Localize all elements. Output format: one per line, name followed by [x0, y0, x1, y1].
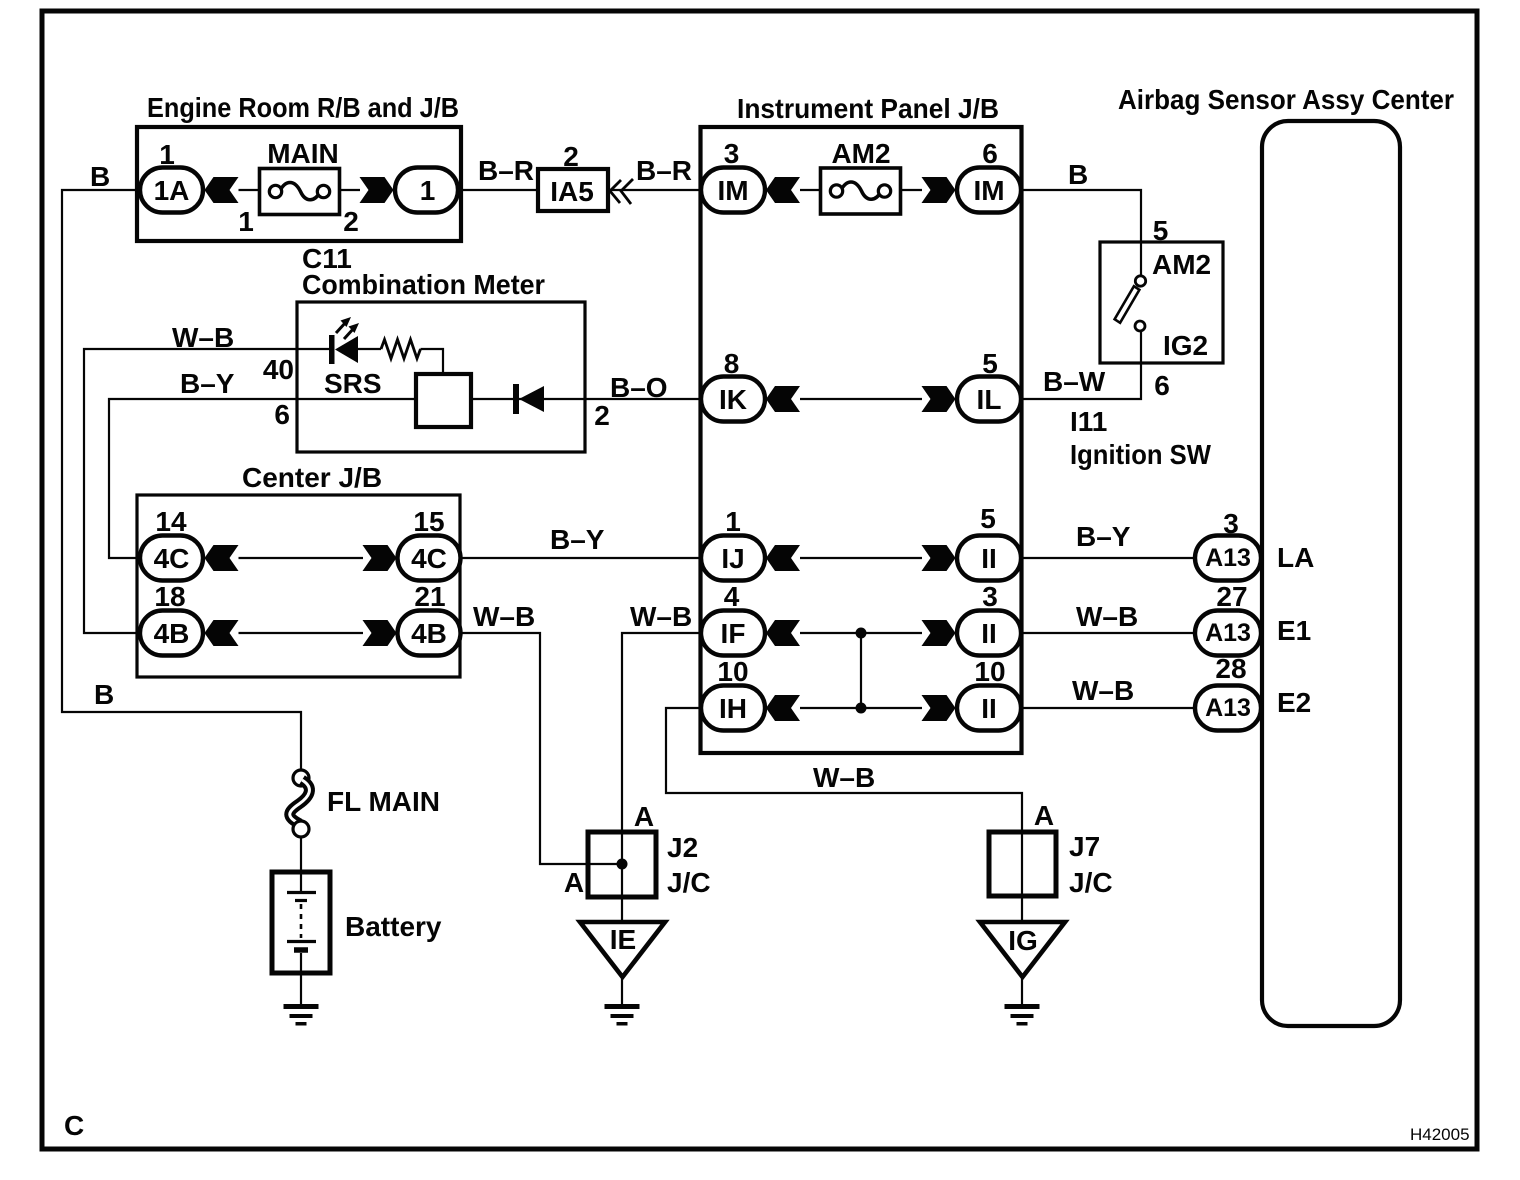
fusible link FL MAIN top terminal — [293, 770, 309, 786]
arrow into 4C left — [205, 545, 239, 571]
arrow into IM right — [922, 177, 956, 203]
switch contact AM2 — [1135, 276, 1145, 286]
wire MAIN fuse to arrow — [340, 189, 361, 191]
svg-text:Battery: Battery — [345, 911, 442, 942]
svg-text:2: 2 — [343, 206, 359, 237]
airbag sensor assy center box — [1262, 121, 1400, 1026]
svg-text:Center J/B: Center J/B — [242, 462, 382, 493]
wire B-R IA5 to IM — [608, 189, 701, 191]
svg-text:W–B: W–B — [1072, 675, 1134, 706]
fusible link FL MAIN bottom terminal — [293, 821, 309, 837]
svg-text:1: 1 — [238, 206, 254, 237]
connector IA5 — [538, 169, 608, 211]
arrow into II row3 — [922, 695, 956, 721]
svg-text:C: C — [64, 1110, 84, 1141]
ground (IG) — [1005, 1004, 1040, 1026]
svg-text:IE: IE — [610, 924, 636, 955]
svg-text:AM2: AM2 — [1152, 249, 1211, 280]
svg-text:1: 1 — [420, 175, 436, 206]
wire W-B II to A13 E1 — [1021, 632, 1196, 634]
junction block Instrument Panel J/B box — [701, 127, 1022, 753]
wire IK to IL — [800, 398, 922, 400]
wire IM arrow to AM2 fuse — [800, 189, 821, 191]
resistor R1 — [381, 340, 421, 359]
wire block to diode to pin 2 — [471, 398, 701, 400]
svg-text:A13: A13 — [1205, 694, 1251, 722]
svg-text:IJ: IJ — [721, 543, 744, 574]
svg-text:4C: 4C — [154, 543, 190, 574]
svg-text:Combination Meter: Combination Meter — [302, 269, 545, 300]
svg-text:1A: 1A — [154, 175, 190, 206]
svg-text:2: 2 — [594, 400, 610, 431]
connector oval 4C left — [140, 536, 203, 581]
svg-text:B–Y: B–Y — [1076, 521, 1131, 552]
svg-text:IH: IH — [719, 693, 747, 724]
connector oval IM right — [957, 168, 1021, 213]
svg-text:II: II — [981, 693, 997, 724]
connector oval II row1 — [957, 536, 1021, 581]
svg-text:5: 5 — [980, 503, 996, 534]
svg-text:J/C: J/C — [667, 867, 711, 898]
svg-text:IA5: IA5 — [550, 176, 594, 207]
connector oval II row3 — [957, 686, 1021, 731]
svg-text:18: 18 — [154, 581, 185, 612]
ground triangle IE — [580, 922, 665, 977]
svg-text:B: B — [94, 679, 114, 710]
svg-text:Engine Room R/B and J/B: Engine Room R/B and J/B — [147, 92, 459, 123]
svg-text:B–Y: B–Y — [550, 524, 605, 555]
wire meter pin 6 internal — [297, 398, 416, 400]
junction dot row2 — [856, 628, 867, 639]
wire B from connector 1A to battery feed — [62, 190, 301, 770]
wire W-B IH to J7 — [666, 708, 1022, 922]
junction connector J7 box — [989, 832, 1056, 896]
connector oval 4C right — [398, 536, 461, 581]
svg-text:A: A — [564, 867, 584, 898]
svg-text:15: 15 — [413, 506, 444, 537]
svg-text:3: 3 — [724, 138, 740, 169]
wire W-B IF to J2 — [622, 633, 701, 922]
arrow into IK — [766, 386, 800, 412]
svg-text:W–B: W–B — [473, 601, 535, 632]
wire W-B II to A13 E2 — [1021, 707, 1196, 709]
junction dot J2 — [617, 859, 628, 870]
svg-text:A: A — [1034, 800, 1054, 831]
svg-text:28: 28 — [1215, 653, 1246, 684]
connector oval IM left — [701, 168, 765, 213]
svg-text:W–B: W–B — [813, 762, 875, 793]
battery box — [272, 872, 330, 973]
svg-text:Airbag Sensor Assy Center: Airbag Sensor Assy Center — [1118, 84, 1454, 115]
svg-text:B–R: B–R — [478, 155, 534, 186]
wire B from IM right to ignition switch AM2 — [1021, 190, 1141, 276]
SRS indicator LED D1 — [329, 335, 335, 364]
wire FL MAIN to battery — [300, 837, 302, 891]
arrow into 4B right — [363, 620, 397, 646]
combination meter box — [297, 302, 585, 452]
wire inside meter pin40 to LED — [297, 348, 330, 350]
svg-text:10: 10 — [974, 656, 1005, 687]
svg-text:4B: 4B — [154, 618, 190, 649]
connector oval II row2 — [957, 611, 1021, 656]
fuse MAIN — [260, 169, 340, 215]
connector oval IF — [701, 611, 765, 656]
svg-text:6: 6 — [274, 399, 290, 430]
junction block Center J/B box — [137, 495, 460, 677]
svg-text:E2: E2 — [1277, 687, 1311, 718]
svg-text:IK: IK — [719, 384, 747, 415]
arrow into oval 1 — [360, 177, 394, 203]
svg-text:4: 4 — [724, 581, 740, 612]
svg-text:J2: J2 — [667, 832, 698, 863]
junction dot row3 — [856, 703, 867, 714]
svg-text:B–Y: B–Y — [180, 368, 235, 399]
svg-text:4B: 4B — [411, 618, 447, 649]
svg-text:B–R: B–R — [636, 155, 692, 186]
svg-text:14: 14 — [155, 506, 187, 537]
svg-text:W–B: W–B — [630, 601, 692, 632]
wire battery to ground — [300, 953, 302, 1005]
connector oval 1A — [140, 168, 203, 213]
internal unit block — [416, 374, 471, 427]
svg-text:IG2: IG2 — [1163, 330, 1208, 361]
svg-text:II: II — [981, 618, 997, 649]
wire B-R oval 1 to IA5 — [458, 189, 538, 191]
svg-text:3: 3 — [982, 581, 998, 612]
ground (battery) — [284, 1004, 319, 1026]
svg-text:4C: 4C — [411, 543, 447, 574]
junction connector J2 box — [588, 832, 656, 897]
svg-text:E1: E1 — [1277, 615, 1311, 646]
svg-text:W–B: W–B — [172, 322, 234, 353]
svg-text:IL: IL — [977, 384, 1002, 415]
svg-text:6: 6 — [982, 138, 998, 169]
wire 4B to 4B — [239, 632, 364, 634]
connector oval 1 — [395, 168, 458, 213]
wire W-B from meter pin 40 to Center J/B 4B — [84, 349, 297, 633]
svg-text:Ignition SW: Ignition SW — [1070, 439, 1212, 470]
switch lever — [1115, 286, 1140, 323]
wire B-Y II to A13 LA — [1021, 557, 1196, 559]
diode D2 — [513, 384, 519, 414]
wire B-Y 4C to IJ — [461, 557, 702, 559]
svg-text:A: A — [634, 801, 654, 832]
connector oval A13 E2 — [1195, 686, 1261, 731]
svg-text:27: 27 — [1216, 581, 1247, 612]
connector oval IL — [957, 377, 1021, 422]
svg-text:21: 21 — [414, 581, 445, 612]
arrow into IL — [922, 386, 956, 412]
svg-text:10: 10 — [717, 656, 748, 687]
svg-text:IG: IG — [1008, 925, 1038, 956]
arrow into II row2 — [922, 620, 956, 646]
arrow into IM left — [766, 177, 800, 203]
ignition switch I11 box — [1100, 242, 1223, 363]
svg-text:H42005: H42005 — [1410, 1125, 1470, 1144]
link wire between IF and IH rows — [860, 633, 862, 708]
arrow into 4B left — [205, 620, 239, 646]
arrow into 1A — [205, 177, 239, 203]
wire IE to ground — [621, 977, 623, 1005]
connector oval A13 LA — [1195, 536, 1261, 581]
svg-text:W–B: W–B — [1076, 601, 1138, 632]
svg-text:AM2: AM2 — [831, 138, 890, 169]
ground triangle IG — [980, 922, 1065, 977]
svg-text:IM: IM — [717, 175, 748, 206]
fusible link FL MAIN element — [290, 780, 310, 824]
wire 1A arrow to MAIN fuse — [239, 189, 262, 191]
svg-text:6: 6 — [1154, 370, 1170, 401]
svg-text:Instrument Panel J/B: Instrument Panel J/B — [737, 93, 999, 124]
svg-text:J/C: J/C — [1069, 867, 1113, 898]
wire resistor to block — [421, 349, 444, 374]
svg-text:B–O: B–O — [610, 372, 668, 403]
connector oval IK — [701, 377, 765, 422]
wire B-Y from meter pin 6 to Center J/B 4C — [109, 399, 297, 558]
connector oval A13 E1 — [1195, 611, 1261, 656]
junction block Engine Room R/B box — [137, 127, 461, 241]
wire W-B 4B to J2 — [461, 633, 623, 864]
connector oval 4B right — [398, 611, 461, 656]
wire B-W ignition IG2 to IL — [1021, 331, 1141, 399]
wire AM2 fuse to arrow — [901, 189, 923, 191]
wire 4C to 4C — [239, 557, 364, 559]
ground (IE) — [605, 1004, 640, 1026]
svg-text:II: II — [981, 543, 997, 574]
svg-text:IM: IM — [973, 175, 1004, 206]
wire LED to resistor — [358, 348, 381, 350]
wire IJ to II — [800, 557, 922, 559]
wire IF to II — [800, 632, 922, 634]
fuse AM2 — [821, 168, 901, 214]
svg-text:B–W: B–W — [1043, 366, 1106, 397]
wire IH to II — [800, 707, 922, 709]
svg-text:J7: J7 — [1069, 831, 1100, 862]
svg-text:MAIN: MAIN — [267, 138, 339, 169]
chevrons at IA5 — [610, 179, 633, 204]
svg-text:B: B — [90, 161, 110, 192]
LED emission arrows — [336, 322, 346, 333]
svg-text:IF: IF — [721, 618, 746, 649]
svg-text:SRS: SRS — [324, 368, 382, 399]
svg-text:B: B — [1068, 159, 1088, 190]
arrow into II row1 — [922, 545, 956, 571]
switch contact IG2 — [1135, 321, 1145, 331]
svg-text:1: 1 — [725, 506, 741, 537]
svg-text:LA: LA — [1277, 542, 1314, 573]
connector oval IH — [701, 686, 765, 731]
svg-text:FL MAIN: FL MAIN — [327, 786, 440, 817]
arrow into IH — [766, 695, 800, 721]
svg-text:A13: A13 — [1205, 619, 1251, 647]
arrow into 4C right — [363, 545, 397, 571]
connector oval 4B left — [140, 611, 203, 656]
svg-text:A13: A13 — [1205, 544, 1251, 572]
arrow into IF — [766, 620, 800, 646]
connector oval IJ — [701, 536, 765, 581]
arrow into IJ — [766, 545, 800, 571]
svg-text:40: 40 — [263, 354, 294, 385]
wire IG to ground — [1021, 977, 1023, 1005]
svg-text:I11: I11 — [1070, 406, 1107, 437]
battery plates — [287, 891, 316, 894]
